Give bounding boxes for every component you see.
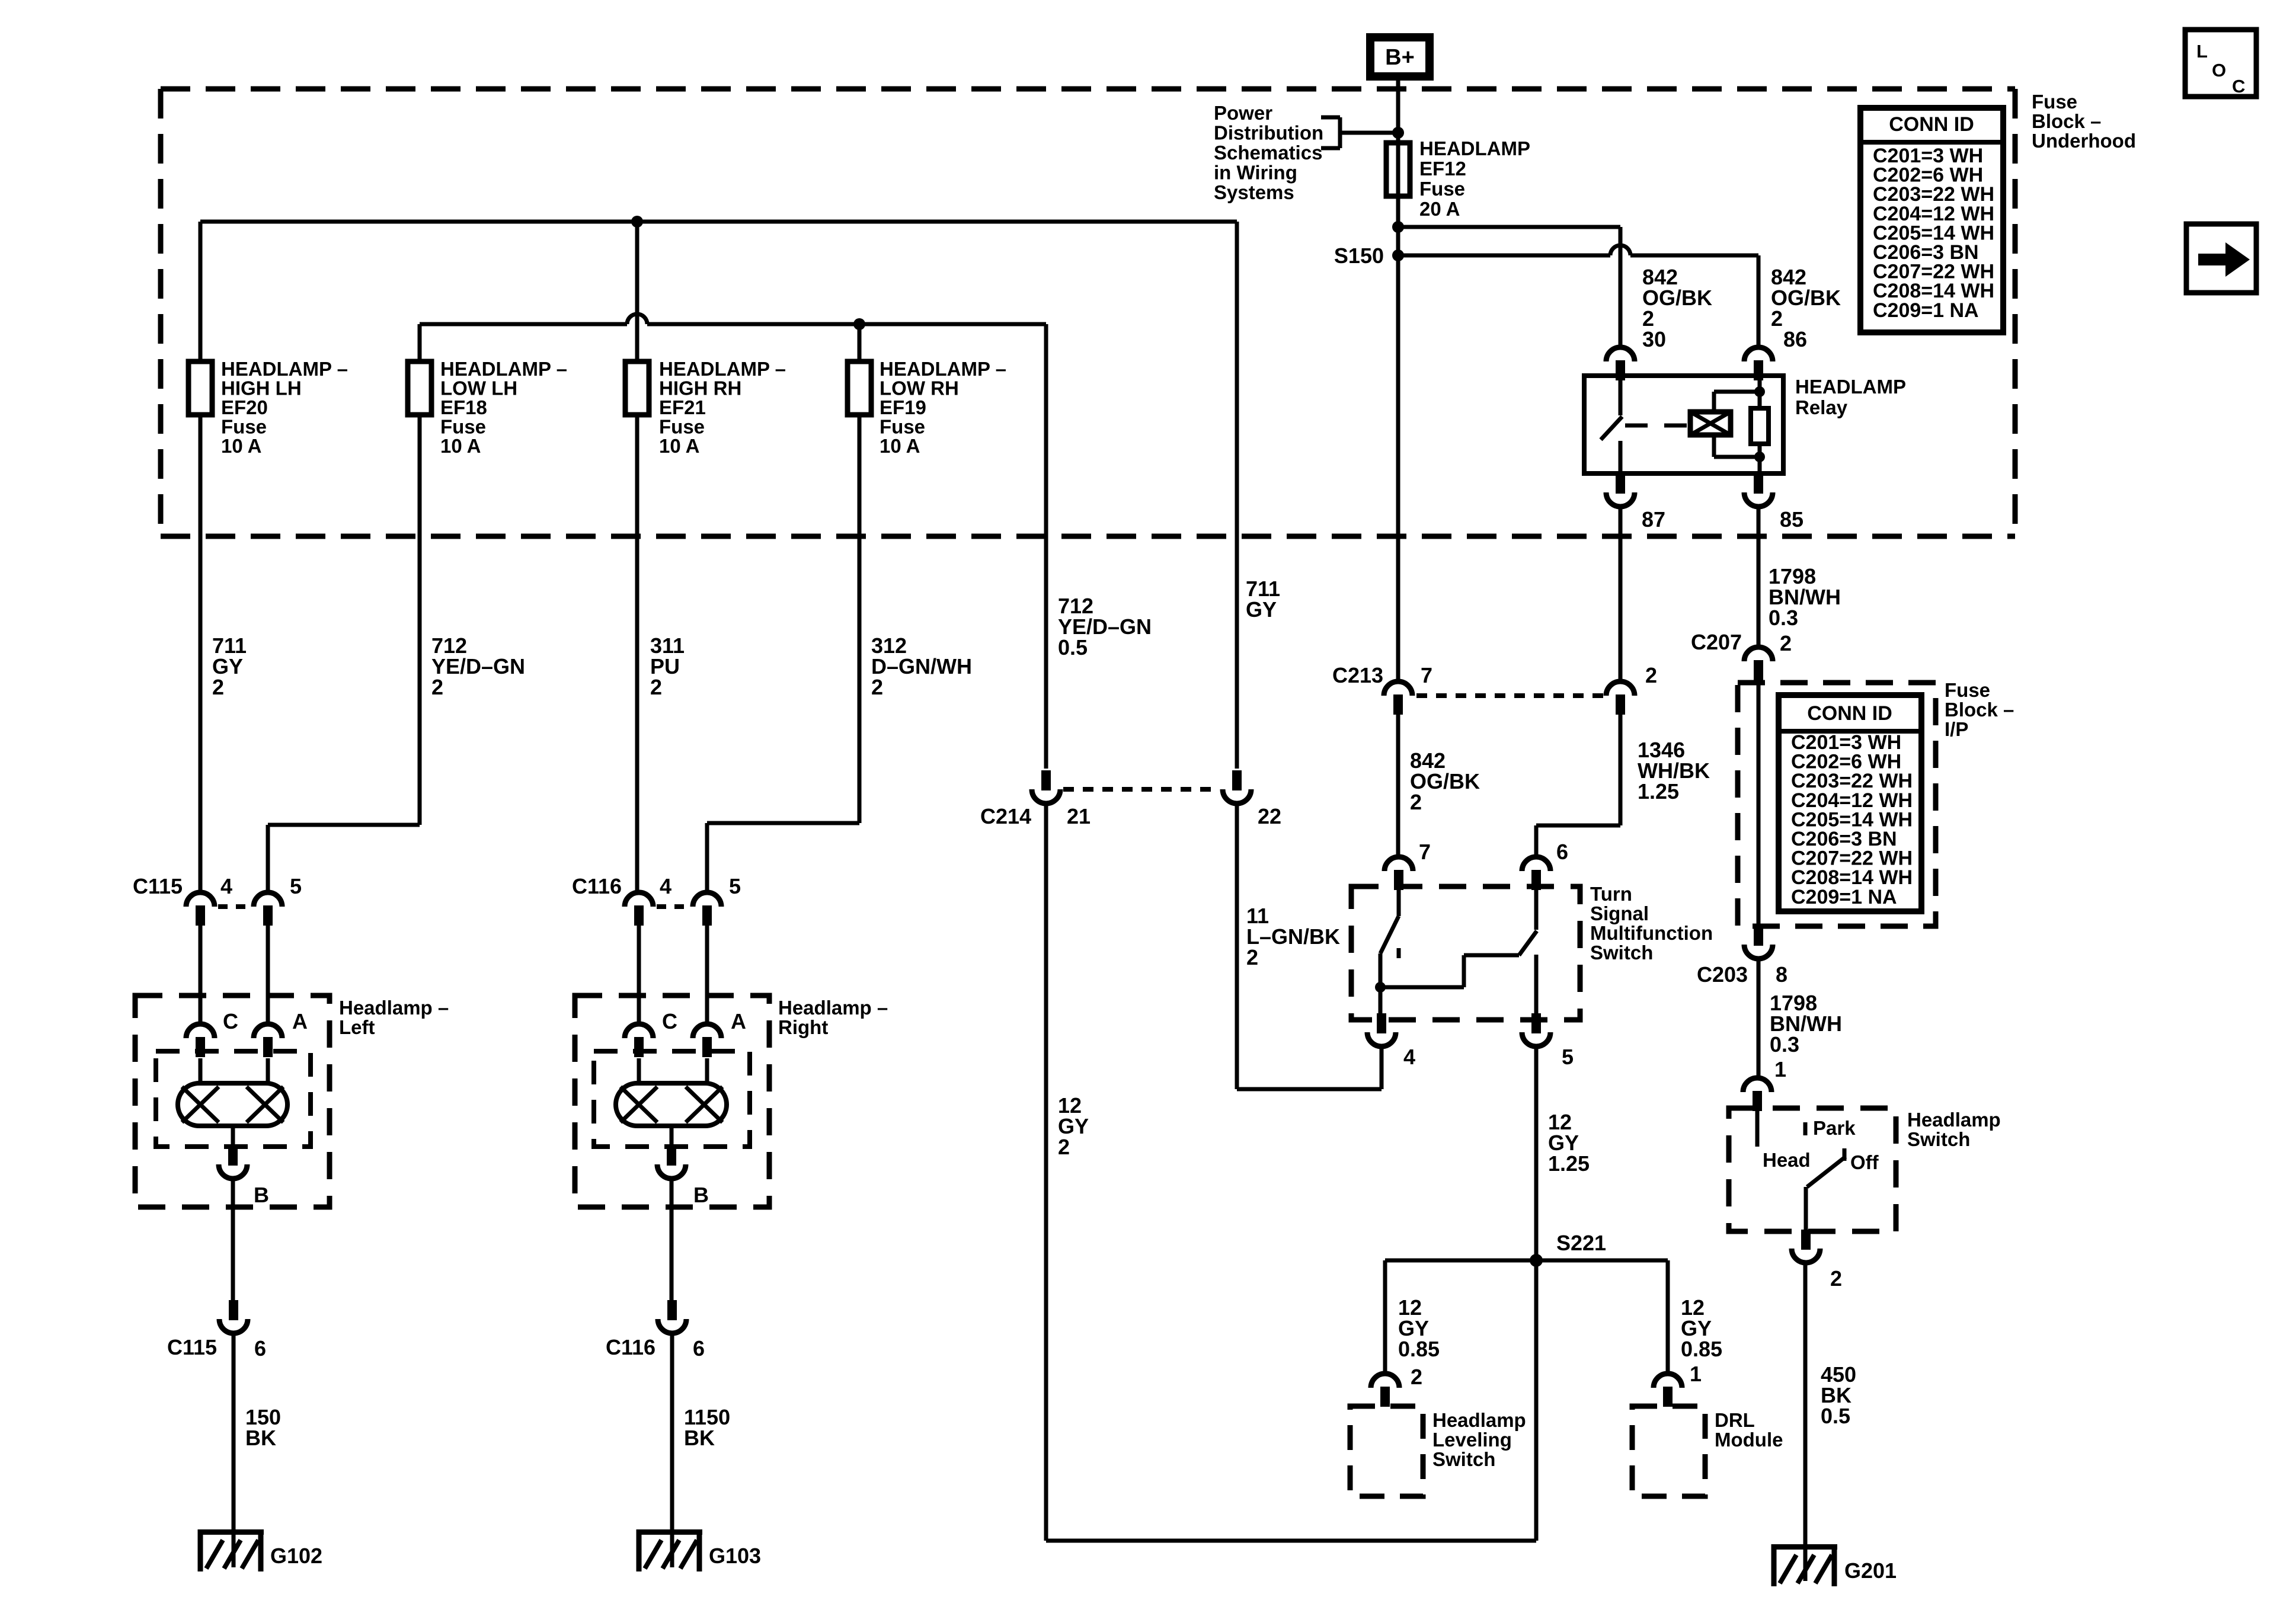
svg-text:I/P: I/P: [1945, 718, 1968, 740]
headlamp leveling switch dashed box: [1350, 1406, 1423, 1496]
headlamp right bulb inner dashed box: [594, 1051, 750, 1147]
svg-text:L: L: [2196, 41, 2208, 62]
svg-text:G102: G102: [270, 1544, 322, 1568]
svg-text:EF21: EF21: [659, 396, 706, 418]
svg-text:B: B: [254, 1183, 269, 1207]
svg-text:2: 2: [1246, 945, 1258, 969]
bulb headlamp right (dual filament): [616, 1058, 727, 1149]
label 1798 BN/WH 0.3 (relay 85 wire): [1769, 564, 1841, 630]
svg-text:86: 86: [1783, 327, 1807, 351]
svg-text:Headlamp –: Headlamp –: [778, 997, 888, 1019]
svg-text:Headlamp –: Headlamp –: [339, 997, 449, 1019]
junction below EF12: [1392, 221, 1620, 233]
svg-text:Switch: Switch: [1432, 1448, 1495, 1470]
svg-text:5: 5: [290, 874, 302, 898]
svg-text:Leveling: Leveling: [1432, 1429, 1512, 1451]
svg-text:G201: G201: [1844, 1558, 1897, 1583]
svg-text:L–GN/BK: L–GN/BK: [1246, 924, 1340, 949]
symbol page-arrow box: [2186, 224, 2256, 293]
svg-text:Signal: Signal: [1590, 902, 1649, 924]
svg-text:10 A: 10 A: [221, 435, 261, 457]
wire 1150 BK to ground G103: [670, 1333, 674, 1567]
fuse block I/P dashed box: [1738, 683, 1936, 926]
label 12 GY 0.85 (DRL branch): [1681, 1295, 1722, 1361]
svg-text:Fuse: Fuse: [221, 416, 267, 438]
connector C213 pins 7 and 2: [1332, 663, 1657, 715]
symbol LOC box: [2185, 30, 2256, 97]
svg-text:2: 2: [212, 675, 224, 699]
svg-text:30: 30: [1642, 327, 1666, 351]
svg-text:Systems: Systems: [1214, 181, 1294, 203]
svg-text:in Wiring: in Wiring: [1214, 162, 1297, 184]
svg-text:HEADLAMP –: HEADLAMP –: [221, 358, 348, 380]
svg-text:Fuse: Fuse: [1419, 178, 1465, 200]
label 1798 BN/WH 0.3 (C203 wire): [1770, 991, 1842, 1057]
wire C203-8 (1798 BN/WH 0.3) to headlamp switch: [1757, 959, 1761, 1079]
svg-text:C116: C116: [606, 1335, 655, 1359]
svg-text:Switch: Switch: [1907, 1128, 1970, 1150]
svg-text:Fuse: Fuse: [880, 416, 925, 438]
connector pin B of headlamp right: [657, 1145, 709, 1207]
label 12 GY 1.25: [1548, 1110, 1590, 1176]
label 311 PU 2: [650, 633, 685, 699]
wire bottom run C214-21 to S221 riser: [1046, 1539, 1536, 1543]
svg-text:0.3: 0.3: [1769, 606, 1798, 630]
svg-text:2: 2: [431, 675, 443, 699]
conn id table underhood: [1860, 108, 2003, 332]
svg-text:4: 4: [1403, 1045, 1415, 1069]
wire headlamp left B to C115 pin 6: [231, 1179, 235, 1301]
svg-text:22: 22: [1258, 804, 1281, 828]
wire headlamp right B to C116 pin 6: [670, 1179, 674, 1301]
wire junction to relay pin 30: [1619, 227, 1623, 347]
svg-text:CONN ID: CONN ID: [1807, 702, 1892, 725]
svg-text:HEADLAMP –: HEADLAMP –: [659, 358, 786, 380]
svg-text:CONN ID: CONN ID: [1889, 113, 1974, 136]
svg-text:Distribution: Distribution: [1214, 122, 1323, 144]
svg-text:0.85: 0.85: [1681, 1337, 1722, 1361]
headlamp switch dashed box: [1729, 1108, 1896, 1231]
svg-text:C115: C115: [133, 874, 183, 898]
svg-text:2: 2: [871, 675, 883, 699]
svg-text:A: A: [292, 1009, 308, 1033]
svg-text:2: 2: [650, 675, 662, 699]
svg-text:O: O: [2212, 60, 2226, 81]
svg-text:6: 6: [1556, 840, 1568, 864]
fuse EF18 HEADLAMP-LOW LH 10A: [408, 358, 567, 457]
svg-text:B+: B+: [1385, 45, 1415, 70]
connector pin 1 of headlamp switch: [1743, 1057, 1786, 1111]
svg-text:Underhood: Underhood: [2032, 130, 2136, 152]
svg-text:1.25: 1.25: [1548, 1151, 1590, 1176]
svg-text:Multifunction: Multifunction: [1590, 922, 1713, 944]
label 450 BK 0.5: [1821, 1362, 1856, 1428]
connector pin B of headlamp left: [219, 1145, 269, 1207]
svg-text:6: 6: [254, 1336, 266, 1361]
fuse block - underhood dashed outline: [161, 89, 2015, 536]
ground G102: [198, 1529, 322, 1571]
svg-text:4: 4: [220, 874, 232, 898]
svg-text:C116: C116: [572, 874, 622, 898]
svg-text:YE/D–GN: YE/D–GN: [431, 654, 525, 678]
fuse EF19 HEADLAMP-LOW RH 10A: [848, 358, 1006, 457]
svg-text:Headlamp: Headlamp: [1907, 1109, 2001, 1131]
connector pin 2 of headlamp leveling switch: [1371, 1365, 1422, 1407]
svg-text:2: 2: [1645, 663, 1657, 687]
svg-text:C209=1 NA: C209=1 NA: [1873, 299, 1979, 322]
label 12 GY 0.85 (leveling switch branch): [1398, 1295, 1440, 1361]
svg-text:87: 87: [1642, 507, 1665, 532]
svg-text:BK: BK: [684, 1426, 715, 1450]
connector pin 30 of headlamp relay: [1606, 327, 1666, 380]
headlamp left outer dashed box: [135, 996, 330, 1207]
wire B+ to fuse EF12 and down to C213 pin 7: [1396, 76, 1400, 681]
connector pin A of headlamp right: [693, 1009, 746, 1057]
power terminal B+: [1370, 37, 1430, 76]
connector pin 6 of turn signal switch: [1522, 840, 1568, 890]
label Turn Signal Multifunction Switch: [1590, 883, 1713, 964]
connector C116 pins 4 and 5: [572, 874, 741, 926]
splice S150: [1334, 244, 1404, 268]
svg-text:C214: C214: [980, 804, 1031, 828]
svg-text:2: 2: [1780, 631, 1792, 655]
svg-text:0.3: 0.3: [1770, 1032, 1799, 1057]
svg-text:Fuse: Fuse: [659, 416, 705, 438]
wire relay 85 to C207: [1757, 507, 1761, 647]
wire through fuse block I/P: [1757, 683, 1761, 926]
connector pin 5 of turn signal switch: [1522, 1013, 1574, 1069]
DRL module dashed box: [1632, 1406, 1705, 1496]
svg-text:2: 2: [1830, 1266, 1842, 1291]
svg-text:Fuse: Fuse: [440, 416, 486, 438]
label 842 OG/BK 2 (pin 86 wire): [1771, 265, 1841, 331]
svg-text:HEADLAMP –: HEADLAMP –: [880, 358, 1006, 380]
wire C116-5 to headlamp right pin A: [705, 926, 709, 1025]
svg-text:0.5: 0.5: [1821, 1404, 1850, 1428]
ground G103: [637, 1529, 761, 1571]
headlamp switch internal contacts Head Park Off: [1757, 1108, 1879, 1231]
svg-text:4: 4: [660, 874, 671, 898]
svg-text:Block –: Block –: [2032, 110, 2101, 132]
connector pin 2 of headlamp switch: [1792, 1230, 1842, 1291]
connector C115 pin 6: [167, 1300, 266, 1361]
svg-text:5: 5: [729, 874, 741, 898]
svg-text:Fuse: Fuse: [2032, 91, 2077, 113]
svg-text:Block –: Block –: [1945, 699, 2014, 721]
label 12 GY 2: [1058, 1093, 1089, 1159]
svg-text:HEADLAMP: HEADLAMP: [1795, 376, 1906, 398]
svg-text:21: 21: [1067, 804, 1091, 828]
svg-text:LOW LH: LOW LH: [440, 377, 517, 399]
bulb headlamp left (dual filament): [178, 1058, 287, 1149]
svg-text:Head: Head: [1763, 1149, 1811, 1171]
connector pin 86 of headlamp relay: [1744, 327, 1807, 380]
note Power Distribution Schematics in Wiring Systems with bracket: [1214, 102, 1404, 203]
connector C115 pins 4 and 5: [133, 874, 302, 926]
wire C115-4 to headlamp left pin C: [199, 926, 203, 1025]
wire EF19 to C116 pin 5: [707, 415, 859, 894]
svg-text:Left: Left: [339, 1016, 375, 1038]
svg-text:Schematics: Schematics: [1214, 142, 1322, 164]
svg-text:HIGH RH: HIGH RH: [659, 377, 741, 399]
fuse EF12 HEADLAMP 20A: [1386, 137, 1530, 220]
svg-text:EF12: EF12: [1419, 158, 1466, 180]
connector pin C of headlamp left: [186, 1009, 238, 1057]
connector pin 7 of turn signal switch: [1384, 840, 1431, 890]
label 842 OG/BK 2 (pin 30 wire): [1642, 265, 1712, 331]
wire C116-4 to headlamp right pin C: [637, 926, 641, 1025]
svg-text:GY: GY: [1246, 597, 1277, 622]
svg-text:1.25: 1.25: [1638, 779, 1679, 804]
label Headlamp - Right: [778, 997, 888, 1038]
label Headlamp - Left: [339, 997, 449, 1038]
connector pin A of headlamp left: [254, 1009, 308, 1057]
label 150 BK: [245, 1405, 281, 1450]
svg-text:Fuse: Fuse: [1945, 679, 1990, 701]
svg-text:6: 6: [693, 1336, 705, 1361]
wire C214-21 (12 GY 2) down to bottom run: [1044, 804, 1048, 1541]
wire S150 to relay pin 86 with hop: [1398, 245, 1758, 347]
wire turn signal pin 5 (12 GY 1.25) to S221: [1534, 1046, 1539, 1541]
svg-text:20 A: 20 A: [1419, 198, 1460, 220]
label 312 D-GN/WH 2: [871, 633, 972, 699]
connector pin 85 of headlamp relay: [1744, 473, 1803, 532]
svg-text:10 A: 10 A: [440, 435, 481, 457]
wire C213-7 to turn signal switch pin 7: [1396, 715, 1400, 858]
svg-text:Turn: Turn: [1590, 883, 1632, 905]
svg-text:Power: Power: [1214, 102, 1272, 124]
svg-text:5: 5: [1562, 1045, 1574, 1069]
svg-text:10 A: 10 A: [659, 435, 699, 457]
svg-text:Relay: Relay: [1795, 396, 1848, 418]
ground G201: [1771, 1544, 1897, 1586]
connector pin C of headlamp right: [625, 1009, 677, 1057]
svg-text:HIGH LH: HIGH LH: [221, 377, 302, 399]
fuse EF21 HEADLAMP-HIGH RH 10A: [625, 358, 786, 457]
connector pin 87 of headlamp relay: [1606, 473, 1665, 532]
wire S221 branch to headlamp leveling switch and DRL module: [1385, 1260, 1668, 1375]
svg-text:10 A: 10 A: [880, 435, 920, 457]
headlamp right outer dashed box: [575, 996, 769, 1207]
wire C115-5 to headlamp left pin A: [266, 926, 270, 1025]
svg-text:B: B: [693, 1183, 709, 1207]
wire 150 BK to ground G102: [232, 1333, 236, 1567]
wire EF21 to C116 pin 4: [635, 415, 639, 894]
svg-text:C203: C203: [1697, 962, 1748, 987]
svg-text:EF20: EF20: [221, 396, 268, 418]
label Fuse Block - Underhood: [2032, 91, 2136, 152]
svg-text:2: 2: [1058, 1135, 1070, 1159]
label 1150 BK: [684, 1405, 730, 1450]
svg-text:BK: BK: [245, 1426, 276, 1450]
svg-text:C207: C207: [1691, 630, 1742, 654]
label 711 GY 2: [212, 633, 247, 699]
svg-text:A: A: [731, 1009, 746, 1033]
label 842 OG/BK 2 (C213-7 wire): [1410, 748, 1480, 814]
fuse EF20 HEADLAMP-HIGH LH 10A: [188, 358, 348, 457]
svg-text:1: 1: [1690, 1362, 1702, 1386]
wire EF18 to C115 pin 5: [268, 415, 420, 894]
wire EF20 to C115 pin 4: [199, 415, 203, 894]
wire low-beam bus (EF18/EF19 tops to C214 pin 21) with hop: [420, 314, 1046, 769]
label Headlamp Switch: [1907, 1109, 2001, 1150]
svg-text:8: 8: [1776, 962, 1787, 987]
relay K: HEADLAMP Relay: [1584, 376, 1783, 473]
label 1346 WH/BK 1.25: [1638, 738, 1710, 804]
svg-text:Park: Park: [1813, 1117, 1856, 1139]
connector C214 pins 21 and 22: [980, 770, 1281, 828]
svg-text:0.5: 0.5: [1058, 635, 1088, 660]
svg-text:Module: Module: [1715, 1429, 1783, 1451]
svg-text:Right: Right: [778, 1016, 828, 1038]
svg-text:1: 1: [1774, 1057, 1786, 1081]
svg-text:HEADLAMP –: HEADLAMP –: [440, 358, 567, 380]
svg-text:2: 2: [1410, 790, 1422, 814]
svg-text:EF18: EF18: [440, 396, 487, 418]
splice S221: [1530, 1231, 1606, 1267]
connector C116 pin 6: [606, 1300, 705, 1361]
svg-text:7: 7: [1419, 840, 1431, 864]
connector C203 pin 8: [1697, 926, 1787, 987]
wire relay 87 to C213 pin 2: [1619, 507, 1623, 681]
turn signal multifunction switch dashed box: [1351, 886, 1580, 1020]
svg-text:C115: C115: [167, 1335, 217, 1359]
svg-text:S150: S150: [1334, 244, 1384, 268]
svg-text:85: 85: [1780, 507, 1803, 532]
svg-text:S221: S221: [1556, 1231, 1606, 1255]
svg-text:DRL: DRL: [1715, 1409, 1755, 1431]
label DRL Module: [1715, 1409, 1783, 1451]
svg-text:Headlamp: Headlamp: [1432, 1409, 1526, 1431]
connector C207 pin 2: [1691, 630, 1792, 680]
svg-text:C: C: [662, 1009, 677, 1033]
label Headlamp Leveling Switch: [1432, 1409, 1526, 1470]
conn id table I/P: [1779, 695, 1921, 911]
svg-text:2: 2: [1411, 1365, 1422, 1389]
wire C214-22 (11 L-GN/BK 2) to turn signal switch pin 4: [1237, 804, 1382, 1089]
connector pin 1 of DRL module: [1654, 1362, 1702, 1407]
headlamp left bulb inner dashed box: [156, 1051, 311, 1147]
wire high-beam bus (EF20/EF21 tops to C214 pin 22): [200, 216, 1237, 769]
turn signal switch internal contacts: [1375, 886, 1537, 1020]
svg-text:EF19: EF19: [880, 396, 926, 418]
svg-text:LOW RH: LOW RH: [880, 377, 959, 399]
label 711 GY (C214-22 wire): [1246, 577, 1280, 622]
svg-text:C209=1 NA: C209=1 NA: [1791, 886, 1897, 908]
svg-text:Off: Off: [1850, 1151, 1879, 1173]
connector pin 4 of turn signal switch: [1367, 1013, 1415, 1069]
svg-text:HEADLAMP: HEADLAMP: [1419, 137, 1530, 159]
label 11 L-GN/BK 2: [1246, 904, 1340, 969]
wire C213-2 to turn signal switch pin 6: [1536, 715, 1620, 858]
svg-text:Switch: Switch: [1590, 942, 1653, 964]
svg-text:2: 2: [1771, 306, 1783, 331]
label 712 YE/D-GN 0.5 (C214-21 wire): [1058, 594, 1152, 660]
wire 450 BK 0.5 to ground G201: [1803, 1263, 1808, 1581]
label Fuse Block - I/P: [1945, 679, 2014, 740]
svg-text:C: C: [223, 1009, 238, 1033]
svg-text:G103: G103: [709, 1544, 761, 1568]
label HEADLAMP Relay: [1795, 376, 1906, 418]
svg-text:D–GN/WH: D–GN/WH: [871, 654, 972, 678]
svg-text:7: 7: [1421, 663, 1432, 687]
svg-text:C213: C213: [1332, 663, 1383, 687]
svg-text:0.85: 0.85: [1398, 1337, 1440, 1361]
svg-text:C: C: [2232, 76, 2245, 97]
label 712 YE/D-GN 2: [431, 633, 525, 699]
